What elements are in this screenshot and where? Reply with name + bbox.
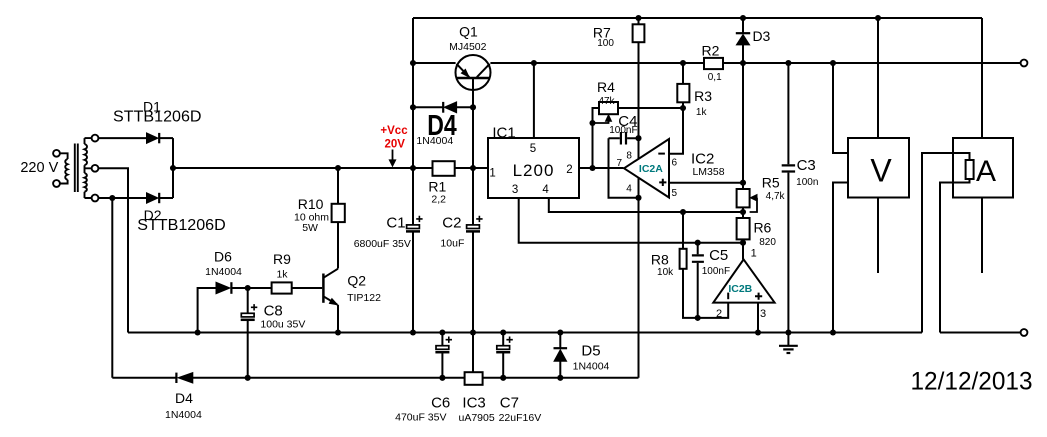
wire R10 to Q2 collector xyxy=(337,222,339,268)
svg-text:3: 3 xyxy=(760,308,766,320)
junction xyxy=(245,375,251,381)
svg-text:220 V: 220 V xyxy=(20,160,58,176)
wire R8 top xyxy=(682,212,684,249)
junction xyxy=(500,329,506,335)
junction xyxy=(695,315,701,321)
junction xyxy=(245,285,251,291)
wire D1 cathode to node xyxy=(159,137,173,139)
junction xyxy=(589,120,595,126)
capacitor C4 xyxy=(609,132,639,145)
junction xyxy=(875,15,881,21)
wire D2 cathode to node xyxy=(159,197,173,199)
wire C1 top xyxy=(412,168,414,225)
resistor R3 xyxy=(677,84,689,102)
junction xyxy=(740,180,746,186)
wire C7 bottom xyxy=(502,353,504,378)
diode D5 cathode bar xyxy=(554,347,568,349)
wire R4 left xyxy=(593,108,600,168)
diode D4 xyxy=(444,102,456,113)
svg-text:6800uF 35V: 6800uF 35V xyxy=(354,238,411,250)
svg-text:IC2A: IC2A xyxy=(639,163,663,175)
wire R9 to node xyxy=(248,287,272,289)
R4 wiper arrow xyxy=(606,115,612,122)
wire C6 bottom xyxy=(441,353,443,378)
resistor R7 xyxy=(633,24,645,42)
junction xyxy=(755,329,761,335)
wire ground rail xyxy=(128,332,922,334)
junction xyxy=(410,60,416,66)
svg-text:C1: C1 xyxy=(386,215,405,232)
svg-text:Q1: Q1 xyxy=(459,24,478,40)
wire secondary top to D1 xyxy=(99,137,147,139)
wire IC2A pin4 down to negative xyxy=(638,178,640,378)
svg-text:8: 8 xyxy=(626,150,632,161)
wire C4 left to pin4 node xyxy=(609,138,639,198)
junction xyxy=(740,240,746,246)
svg-text:10uF: 10uF xyxy=(440,237,464,249)
wire C3 bottom xyxy=(787,173,789,333)
resistor R8 xyxy=(680,249,687,269)
svg-text:470uF 35V: 470uF 35V xyxy=(395,412,446,424)
wire Q1 collector rail xyxy=(490,62,704,64)
junction xyxy=(557,375,563,381)
wire C6 top xyxy=(441,333,443,346)
svg-text:1k: 1k xyxy=(696,107,708,118)
junction xyxy=(830,329,836,335)
wire rail to R10 xyxy=(337,168,339,204)
ground xyxy=(779,333,798,354)
svg-text:7: 7 xyxy=(617,158,623,169)
svg-text:100nF: 100nF xyxy=(702,266,730,277)
capacitor C7 plates xyxy=(496,337,513,353)
svg-text:2: 2 xyxy=(716,308,722,320)
op-amp IC2A xyxy=(624,139,669,198)
ammeter A xyxy=(953,138,1013,198)
svg-text:2: 2 xyxy=(566,164,572,176)
wire C8 top xyxy=(247,288,249,313)
resistor R10 xyxy=(332,204,345,222)
diode D3 cathode bar xyxy=(736,32,750,34)
wire D3 top xyxy=(742,18,744,33)
svg-text:IC1: IC1 xyxy=(492,124,515,141)
junction xyxy=(470,165,476,171)
junction xyxy=(785,329,791,335)
wire IC2A pin5 xyxy=(669,182,743,184)
svg-text:1N4004: 1N4004 xyxy=(416,135,453,147)
wire left vertical Vcc xyxy=(412,18,414,168)
svg-text:5W: 5W xyxy=(302,222,318,234)
svg-text:D5: D5 xyxy=(581,343,600,360)
capacitor C5 xyxy=(692,255,704,261)
wire C3 top xyxy=(787,63,789,164)
wire L200 pin5 xyxy=(533,63,535,138)
svg-text:4: 4 xyxy=(626,183,632,194)
transistor Q1 xyxy=(456,55,491,107)
Vcc arrow stem xyxy=(392,150,394,161)
trimmer R4 xyxy=(599,102,618,114)
wire A meter top xyxy=(981,18,983,138)
svg-text:A: A xyxy=(976,155,996,188)
wire shunt top to ground rail xyxy=(922,153,970,333)
diode D4 bottom xyxy=(178,373,193,383)
junction xyxy=(680,60,686,66)
wire shunt bottom to output xyxy=(940,179,970,333)
svg-text:IC3: IC3 xyxy=(462,395,485,412)
junction xyxy=(470,329,476,335)
wire L200 pin3 xyxy=(519,198,743,243)
svg-text:1: 1 xyxy=(489,168,495,180)
wire D5 bottom xyxy=(559,361,561,378)
diode D6 xyxy=(216,282,230,294)
wire +V rail xyxy=(173,167,433,169)
transistor Q2 xyxy=(323,269,338,305)
svg-text:R6: R6 xyxy=(753,220,771,236)
wire D5 top xyxy=(559,333,561,349)
junction xyxy=(680,105,686,111)
svg-text:TIP122: TIP122 xyxy=(347,292,381,304)
svg-text:10k: 10k xyxy=(657,267,674,278)
R5 wiper stem xyxy=(750,198,757,212)
junction xyxy=(531,60,537,66)
svg-text:C7: C7 xyxy=(500,395,519,412)
output terminal + xyxy=(1021,60,1028,67)
svg-text:C3: C3 xyxy=(797,157,816,174)
svg-text:R1: R1 xyxy=(428,178,446,194)
wire L200 pin4 xyxy=(549,198,743,212)
svg-text:100n: 100n xyxy=(796,177,818,188)
Vcc arrowhead xyxy=(389,160,395,166)
resistor R9 xyxy=(272,282,292,293)
wire D6 anode to ground xyxy=(198,288,216,333)
svg-text:47k: 47k xyxy=(598,96,615,107)
resistor R6 xyxy=(737,218,750,239)
svg-text:R5: R5 xyxy=(762,175,780,191)
diode D6 cathode bar xyxy=(230,282,232,294)
junction xyxy=(439,375,445,381)
svg-text:STTB1206D: STTB1206D xyxy=(137,217,226,234)
wire top rail xyxy=(413,17,982,19)
wire V meter left bottom xyxy=(833,183,848,333)
svg-text:C5: C5 xyxy=(709,247,728,264)
capacitor C6 plates xyxy=(435,337,452,353)
junction xyxy=(635,195,641,201)
diode D4 cathode bar xyxy=(442,102,444,113)
wire negative rail xyxy=(112,377,176,379)
wire Q1 emitter rail xyxy=(413,62,456,64)
wire D3 bottom xyxy=(742,45,744,63)
wire C1 bottom xyxy=(412,232,414,332)
junction xyxy=(335,165,341,171)
capacitor C2 plates xyxy=(466,216,483,232)
svg-text:V: V xyxy=(870,152,892,188)
svg-text:STTB1206D: STTB1206D xyxy=(113,109,202,126)
svg-text:20V: 20V xyxy=(384,138,405,150)
resistor R1 xyxy=(433,161,455,176)
junction xyxy=(635,135,641,141)
wire centre tap down to ground rail xyxy=(99,168,129,332)
wire IC2B pin3 xyxy=(757,303,759,333)
transformer T1 windings and core xyxy=(60,138,92,198)
junction xyxy=(740,209,746,215)
svg-text:D6: D6 xyxy=(214,249,232,265)
wire L200 pin2 output xyxy=(579,167,624,169)
voltmeter V xyxy=(848,138,909,198)
svg-text:C2: C2 xyxy=(442,215,461,232)
junction xyxy=(470,104,476,110)
svg-text:C8: C8 xyxy=(264,303,283,320)
svg-text:MJ4502: MJ4502 xyxy=(449,41,487,53)
R5 wiper arrow xyxy=(750,195,757,201)
junction xyxy=(410,104,416,110)
svg-text:12/12/2013: 12/12/2013 xyxy=(911,368,1033,396)
transformer primary terminal xyxy=(53,150,60,157)
regulator IC1 L200 xyxy=(488,138,579,198)
junction xyxy=(170,165,176,171)
svg-text:uA7905: uA7905 xyxy=(458,412,494,424)
svg-text:D3: D3 xyxy=(752,28,770,44)
wire H2 down to R5 xyxy=(742,63,744,189)
svg-text:R10: R10 xyxy=(298,196,324,212)
wire C7 top xyxy=(502,333,504,346)
svg-text:LM358: LM358 xyxy=(692,166,724,178)
capacitor C1 plates xyxy=(406,216,423,232)
svg-text:1N4004: 1N4004 xyxy=(205,266,242,278)
junction xyxy=(195,329,201,335)
svg-text:D4: D4 xyxy=(175,390,193,406)
wire A meter bottom stub xyxy=(981,198,983,274)
resistor R2 xyxy=(704,58,723,69)
op-amp IC2B xyxy=(713,259,774,302)
wire Q2 base xyxy=(292,287,323,289)
diode D1 cathode bar xyxy=(158,133,160,143)
wire R3 top xyxy=(682,63,684,84)
junction xyxy=(410,165,416,171)
diode D2 cathode bar xyxy=(158,193,160,203)
svg-text:R9: R9 xyxy=(273,251,291,267)
svg-text:+Vcc: +Vcc xyxy=(380,125,408,137)
svg-text:R3: R3 xyxy=(694,88,712,104)
ammeter shunt xyxy=(966,160,974,179)
regulator IC3 xyxy=(465,372,483,385)
svg-text:5: 5 xyxy=(530,143,536,155)
svg-text:100nF: 100nF xyxy=(609,125,637,136)
svg-text:2,2: 2,2 xyxy=(431,194,446,206)
junction xyxy=(109,195,115,201)
junction xyxy=(557,329,563,335)
wire R6 to IC2B out xyxy=(742,239,744,259)
svg-text:4,7k: 4,7k xyxy=(766,191,786,202)
wire C5 bottom xyxy=(697,263,699,318)
transformer primary terminal xyxy=(53,180,60,187)
junction xyxy=(830,60,836,66)
transformer secondary terminal top xyxy=(92,135,99,142)
svg-text:1N4004: 1N4004 xyxy=(573,360,610,372)
wire secondary bottom to D2 xyxy=(99,197,147,199)
wire output rail bottom xyxy=(940,332,1021,334)
junction xyxy=(500,375,506,381)
svg-text:6: 6 xyxy=(672,158,678,169)
wire output rail after R2 xyxy=(723,62,1021,64)
wire C2 bottom xyxy=(472,232,474,332)
junction xyxy=(740,60,746,66)
svg-text:1: 1 xyxy=(751,247,757,259)
wire C2 node to IC3 xyxy=(472,333,474,373)
svg-text:0,1: 0,1 xyxy=(708,72,722,83)
wire D4 to Q1 base xyxy=(457,106,473,108)
svg-text:22uF16V: 22uF16V xyxy=(499,412,542,424)
wire V meter left top xyxy=(833,63,848,153)
wire negative branch down xyxy=(111,198,113,378)
svg-text:C6: C6 xyxy=(431,395,450,412)
svg-text:1N4004: 1N4004 xyxy=(165,409,202,421)
transformer secondary terminal bottom xyxy=(92,195,99,202)
svg-text:5: 5 xyxy=(672,188,678,199)
wire +V rail after R1 xyxy=(455,167,488,169)
wire R4 right to R3 xyxy=(618,107,683,109)
wire R5 to R6 xyxy=(742,207,744,218)
svg-text:IC2B: IC2B xyxy=(728,283,752,295)
wire C8 bottom xyxy=(247,321,249,378)
junction xyxy=(680,209,686,215)
wire V meter bottom stub xyxy=(877,198,879,274)
svg-text:4: 4 xyxy=(542,184,549,196)
wire R3 bottom to pin6 xyxy=(669,102,683,153)
junction xyxy=(589,165,595,171)
wire R8 bottom xyxy=(683,269,728,318)
svg-text:R8: R8 xyxy=(651,252,669,268)
transformer secondary terminal centre tap xyxy=(92,165,99,172)
svg-text:R4: R4 xyxy=(597,79,615,95)
svg-text:100u 35V: 100u 35V xyxy=(260,319,305,331)
junction xyxy=(410,329,416,335)
wire C5 top xyxy=(697,243,699,255)
capacitor C8 plates xyxy=(241,304,258,320)
diode D3 xyxy=(736,35,749,45)
diode D2 xyxy=(147,193,159,203)
junction xyxy=(635,15,641,21)
junction xyxy=(439,329,445,335)
junction xyxy=(785,60,791,66)
output terminal - xyxy=(1021,329,1028,336)
capacitor C3 xyxy=(782,165,795,171)
svg-text:100: 100 xyxy=(597,38,614,49)
junction xyxy=(740,15,746,21)
diode D4b cathode bar xyxy=(175,373,177,383)
svg-text:1k: 1k xyxy=(276,269,288,281)
wire V meter top xyxy=(877,18,879,138)
wire node to D4 xyxy=(413,106,443,108)
diode D5 xyxy=(554,350,567,362)
svg-text:L200: L200 xyxy=(513,161,555,180)
wire R7 top xyxy=(638,18,640,24)
wire negative rail 2 xyxy=(193,377,465,379)
wire R7 bottom to pin8 xyxy=(638,42,640,159)
diode D1 xyxy=(147,133,159,143)
wire rectifier output vertical xyxy=(172,138,174,198)
wire negative rail 3 xyxy=(483,377,639,379)
wire node to D6 xyxy=(231,287,247,289)
svg-text:820: 820 xyxy=(759,237,776,248)
wire Q1 base down xyxy=(472,78,474,225)
wire Q2 emitter to ground xyxy=(337,305,339,333)
junction xyxy=(695,240,701,246)
junction xyxy=(335,329,341,335)
svg-text:R2: R2 xyxy=(702,42,720,58)
R4 wiper stem xyxy=(593,121,609,123)
svg-text:Q2: Q2 xyxy=(347,273,366,289)
svg-text:3: 3 xyxy=(512,184,518,196)
trimmer R5 xyxy=(737,189,750,207)
